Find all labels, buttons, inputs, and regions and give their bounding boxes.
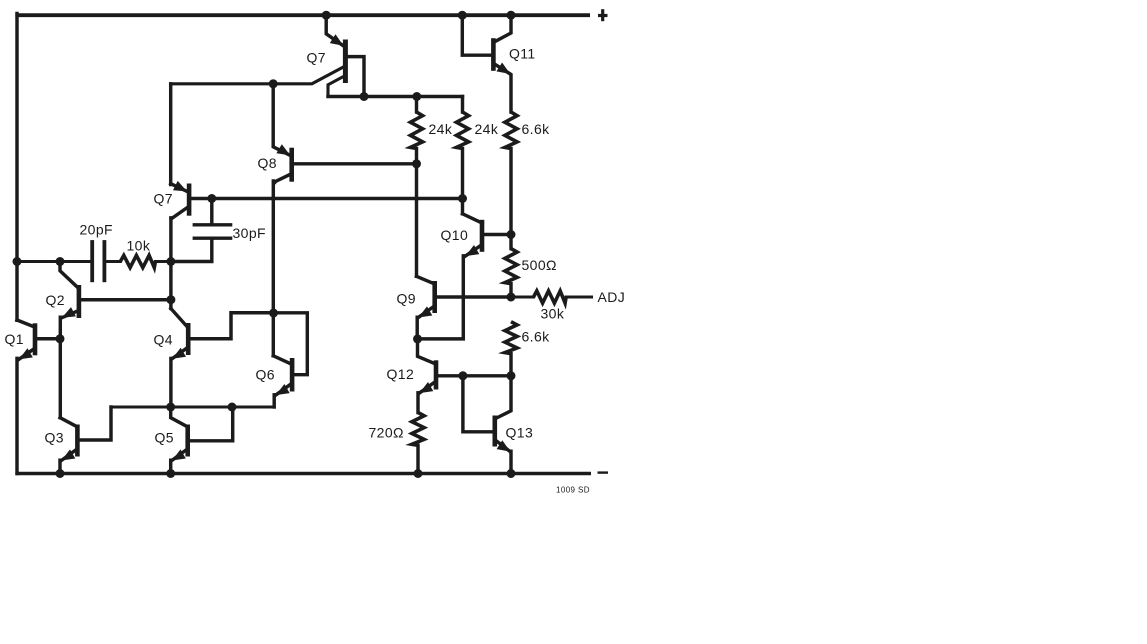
wire Q8 collector down to Q6 node xyxy=(272,181,275,356)
svg-text:Q4: Q4 xyxy=(154,332,173,348)
node dot bottom rail / Q13 xyxy=(507,469,516,478)
node dot bottom rail / Q5 xyxy=(166,469,175,478)
node dot Q2 collector y=261.5 xyxy=(56,257,65,266)
label 720ohm xyxy=(369,425,404,441)
svg-text:10k: 10k xyxy=(127,238,151,254)
label 6.6k (lower) xyxy=(522,329,551,345)
resistor 6.6k (upper) xyxy=(505,112,517,235)
node dot 30pF top on y=198.5 xyxy=(207,194,216,203)
node dot top rail / Q11 collector xyxy=(507,11,516,20)
label Q9 xyxy=(397,291,416,307)
resistor 24k (right) xyxy=(456,97,468,199)
transistor Q13 xyxy=(463,376,511,474)
label Q7 (lower) xyxy=(154,191,173,207)
svg-text:Q12: Q12 xyxy=(387,366,415,382)
node dot left rail y=261.5 xyxy=(13,257,22,266)
svg-text:Q6: Q6 xyxy=(256,367,275,383)
svg-text:Q13: Q13 xyxy=(506,425,534,441)
label Q11 xyxy=(509,46,536,62)
node dot Q8 base / 24k bottom xyxy=(412,159,421,168)
label Q13 xyxy=(506,425,534,441)
capacitor C1 20pF xyxy=(92,242,120,280)
svg-text:ADJ: ADJ xyxy=(598,289,626,305)
svg-text:6.6k: 6.6k xyxy=(522,121,551,137)
wire top V+ rail xyxy=(15,13,590,17)
label 30k xyxy=(541,306,565,322)
node dot bottom rail / Q3 xyxy=(56,469,65,478)
wire 24k-right bottom to Q10 collector xyxy=(461,199,464,214)
wire left rail lower segment xyxy=(15,358,18,473)
label 10k xyxy=(127,238,151,254)
svg-text:Q7: Q7 xyxy=(154,191,173,207)
transistor Q7 (lower PNP) xyxy=(171,181,192,218)
svg-text:Q10: Q10 xyxy=(441,227,469,243)
node dot Q8 emitter on y=83.8 xyxy=(269,79,278,88)
wire 20pF input row y=261.5 xyxy=(16,260,91,263)
transistor Q9 xyxy=(417,276,512,339)
label 6.6k (upper) xyxy=(522,121,551,137)
node dot Q4 emitter / y=407 xyxy=(166,403,175,412)
label Q6 xyxy=(256,367,275,383)
label 24k (right) xyxy=(475,121,499,137)
node dot ADJ node xyxy=(507,293,516,302)
node dot Q9 emitter / Q12 collector xyxy=(413,334,422,343)
label Q5 xyxy=(155,430,174,446)
node dot 24k left top xyxy=(412,92,421,101)
wire node row y=96.5 xyxy=(328,95,463,98)
svg-text:Q5: Q5 xyxy=(155,430,174,446)
transistor Q8 xyxy=(273,84,416,183)
transistor Q4 xyxy=(171,309,274,408)
svg-text:Q2: Q2 xyxy=(46,292,65,308)
transistor Q7 (top PNP) xyxy=(171,15,364,96)
label Q12 xyxy=(387,366,415,382)
node dot Q10 base / 6.6k-500 xyxy=(507,230,516,239)
resistor 720ohm xyxy=(412,413,424,474)
node dot bottom rail / 720ohm xyxy=(414,469,423,478)
node dot top rail / Q7 emitter xyxy=(322,11,331,20)
label 500ohm xyxy=(522,257,557,273)
label Q7 (top) xyxy=(307,50,326,66)
node dot Q6 collector node xyxy=(269,309,278,318)
transistor Q11 xyxy=(462,15,511,112)
wire left rail upper segment xyxy=(15,14,18,321)
wire Q7 collector down x=170.9 xyxy=(169,218,172,309)
node dot Q2 base / x=170.9 xyxy=(166,295,175,304)
transistor Q3 xyxy=(60,407,111,474)
resistor 6.6k (lower) xyxy=(505,322,517,376)
transistor Q1 xyxy=(17,320,60,360)
svg-text:30k: 30k xyxy=(541,306,565,322)
capacitor C2 30pF xyxy=(171,199,231,262)
wire Q7 emitter drop x=170.7 xyxy=(169,84,172,185)
label Q10 xyxy=(441,227,469,243)
resistor 500ohm xyxy=(505,235,517,298)
label 24k (left) xyxy=(429,121,453,137)
label 1009 SD xyxy=(556,486,590,495)
transistor Q6 xyxy=(273,313,307,407)
svg-text:24k: 24k xyxy=(429,121,453,137)
svg-text:720Ω: 720Ω xyxy=(369,425,404,441)
svg-text:6.6k: 6.6k xyxy=(522,329,551,345)
resistor 24k (left) xyxy=(410,97,422,164)
wire bottom V- rail xyxy=(15,472,591,476)
label 20pF xyxy=(80,222,114,238)
node dot 10k / Q7 collector xyxy=(166,257,175,266)
svg-text:20pF: 20pF xyxy=(80,222,114,238)
node dot Q12 base / Q13 base xyxy=(458,371,467,380)
transistor Q2 xyxy=(60,262,171,418)
label Q4 xyxy=(154,332,173,348)
node dot Q7 collector / y=96.5 xyxy=(360,92,369,101)
transistor Q10 xyxy=(418,214,511,339)
wire 24k-left bottom to Q9 collector xyxy=(415,164,418,276)
node dot Q12 base / 6.6k bottom xyxy=(507,371,516,380)
label 30pF xyxy=(233,225,267,241)
resistor 30k xyxy=(511,291,592,303)
resistor 10k xyxy=(120,255,171,267)
label Q3 xyxy=(45,430,64,446)
transistor Q12 xyxy=(418,339,512,413)
transistor Q5 xyxy=(171,407,233,474)
svg-text:Q1: Q1 xyxy=(5,331,24,347)
svg-text:Q8: Q8 xyxy=(258,155,277,171)
label Q1 xyxy=(5,331,24,347)
node dot Q5 base / y=407 xyxy=(228,403,237,412)
svg-text:Q11: Q11 xyxy=(509,46,536,62)
label Q8 xyxy=(258,155,277,171)
svg-text:24k: 24k xyxy=(475,121,499,137)
svg-text:Q3: Q3 xyxy=(45,430,64,446)
svg-text:Q9: Q9 xyxy=(397,291,416,307)
label Q2 xyxy=(46,292,65,308)
svg-text:Q7: Q7 xyxy=(307,50,326,66)
svg-text:500Ω: 500Ω xyxy=(522,257,557,273)
wire long node row y=198.5 xyxy=(191,197,462,200)
node dot 24k right bottom on y=198.5 xyxy=(458,194,467,203)
node dot Q1 base / Q2 emitter xyxy=(56,334,65,343)
svg-text:30pF: 30pF xyxy=(233,225,267,241)
- terminal xyxy=(598,471,609,473)
svg-text:1009 SD: 1009 SD xyxy=(556,486,590,495)
+ terminal xyxy=(598,9,608,21)
wire node row y=407 xyxy=(111,405,274,408)
node dot top rail / Q11 base xyxy=(458,11,467,20)
label ADJ xyxy=(598,289,626,305)
